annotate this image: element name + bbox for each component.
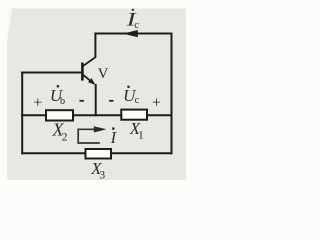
svg-text:3: 3 (99, 169, 105, 180)
wire: top (94, 33, 172, 35)
label U_c (123, 86, 140, 107)
wire: left vertical (21, 72, 23, 155)
svg-text:2: 2 (62, 131, 68, 143)
label - (U_b negative) (80, 100, 84, 102)
svg-text:+: + (152, 95, 161, 112)
svg-text:b: b (60, 96, 65, 107)
wire: middle row (21, 114, 172, 116)
label I_c (125, 9, 139, 32)
background panel (7, 9, 186, 181)
label X3 (90, 159, 105, 181)
current direction arrow I (loop) (78, 129, 100, 143)
wire: right vertical (171, 33, 173, 155)
resistor X1 (121, 110, 147, 120)
wire: base lead (left edge to transistor base) (21, 72, 81, 74)
label U_b (50, 85, 65, 107)
svg-text:c: c (134, 19, 139, 31)
resistor X3 (86, 149, 112, 159)
label X1 (129, 119, 144, 141)
label - (U_c negative) (109, 100, 113, 102)
svg-text:1: 1 (138, 129, 144, 141)
svg-text:c: c (135, 95, 140, 106)
wire: collector lead (94, 33, 96, 58)
resistor X2 (46, 110, 73, 120)
wire: emitter lead (95, 84, 97, 116)
wire: bottom (21, 152, 172, 154)
current arrow I_c on top wire (123, 30, 138, 37)
svg-text:V: V (98, 66, 109, 82)
label X2 (52, 120, 68, 144)
transistor V (82, 57, 95, 85)
label I (110, 127, 118, 147)
svg-text:+: + (33, 95, 42, 112)
